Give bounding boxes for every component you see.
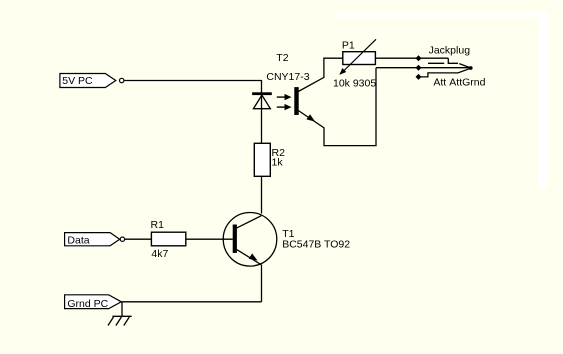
svg-text:Grnd PC: Grnd PC (67, 298, 108, 310)
svg-text:10k 9305: 10k 9305 (333, 77, 376, 89)
svg-text:BC547B TO92: BC547B TO92 (282, 239, 350, 251)
svg-text:5V PC: 5V PC (62, 75, 93, 87)
svg-text:CNY17-3: CNY17-3 (266, 71, 309, 83)
svg-text:R1: R1 (151, 219, 165, 231)
svg-text:Att: Att (433, 77, 446, 89)
svg-text:P1: P1 (342, 40, 355, 52)
svg-text:4k7: 4k7 (151, 248, 168, 260)
svg-text:Jackplug: Jackplug (429, 44, 471, 56)
svg-text:1k: 1k (272, 156, 284, 168)
svg-text:Data: Data (67, 235, 89, 247)
svg-text:T2: T2 (276, 52, 288, 64)
svg-text:AttGrnd: AttGrnd (449, 77, 485, 89)
